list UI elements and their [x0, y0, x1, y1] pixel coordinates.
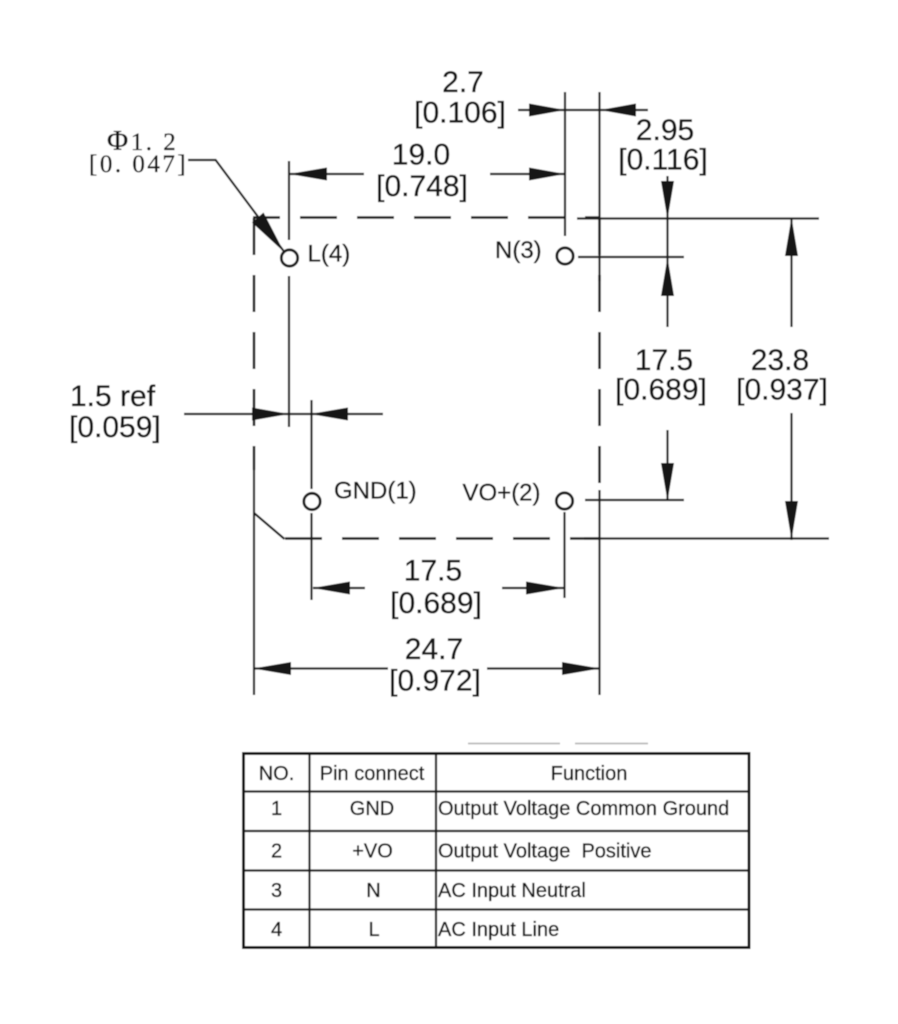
- svg-text:GND: GND: [350, 798, 394, 820]
- svg-text:17.5: 17.5: [404, 555, 462, 588]
- svg-text:2.7: 2.7: [442, 66, 484, 99]
- svg-text:[0.059]: [0.059]: [69, 411, 161, 444]
- svg-text:VO+(2): VO+(2): [463, 480, 541, 507]
- svg-text:19.0: 19.0: [392, 139, 450, 172]
- svg-text:[0.106]: [0.106]: [414, 97, 506, 130]
- svg-text:1: 1: [271, 798, 282, 820]
- svg-text:23.8: 23.8: [751, 344, 809, 377]
- svg-text:N: N: [366, 880, 380, 902]
- svg-text:[0. 047]: [0. 047]: [89, 151, 188, 178]
- svg-text:17.5: 17.5: [635, 344, 693, 377]
- svg-text:L(4): L(4): [308, 241, 351, 268]
- svg-text:GND(1): GND(1): [334, 478, 417, 505]
- svg-text:Function: Function: [551, 763, 628, 785]
- svg-text:AC Input Neutral: AC Input Neutral: [438, 880, 586, 902]
- svg-text:2.95: 2.95: [636, 114, 694, 147]
- svg-text:[0.972]: [0.972]: [389, 665, 481, 698]
- svg-text:1.5 ref: 1.5 ref: [70, 380, 156, 413]
- svg-text:24.7: 24.7: [405, 633, 463, 666]
- svg-text:2: 2: [271, 841, 282, 863]
- svg-text:N(3): N(3): [495, 237, 542, 264]
- svg-text:4: 4: [271, 919, 282, 941]
- svg-text:[0.116]: [0.116]: [618, 144, 708, 177]
- svg-text:L: L: [368, 919, 379, 941]
- svg-text:3: 3: [271, 880, 282, 902]
- svg-text:+VO: +VO: [352, 841, 393, 863]
- svg-text:AC Input Line: AC Input Line: [438, 919, 559, 941]
- svg-text:[0.748]: [0.748]: [376, 170, 468, 203]
- svg-text:[0.937]: [0.937]: [736, 374, 828, 407]
- svg-text:[0.689]: [0.689]: [615, 374, 707, 407]
- svg-text:Pin connect: Pin connect: [320, 763, 425, 785]
- svg-text:Output Voltage Positive: Output Voltage Positive: [438, 841, 651, 863]
- svg-text:[0.689]: [0.689]: [390, 587, 482, 620]
- svg-text:Output Voltage Common Ground: Output Voltage Common Ground: [438, 798, 729, 820]
- svg-text:NO.: NO.: [259, 763, 295, 785]
